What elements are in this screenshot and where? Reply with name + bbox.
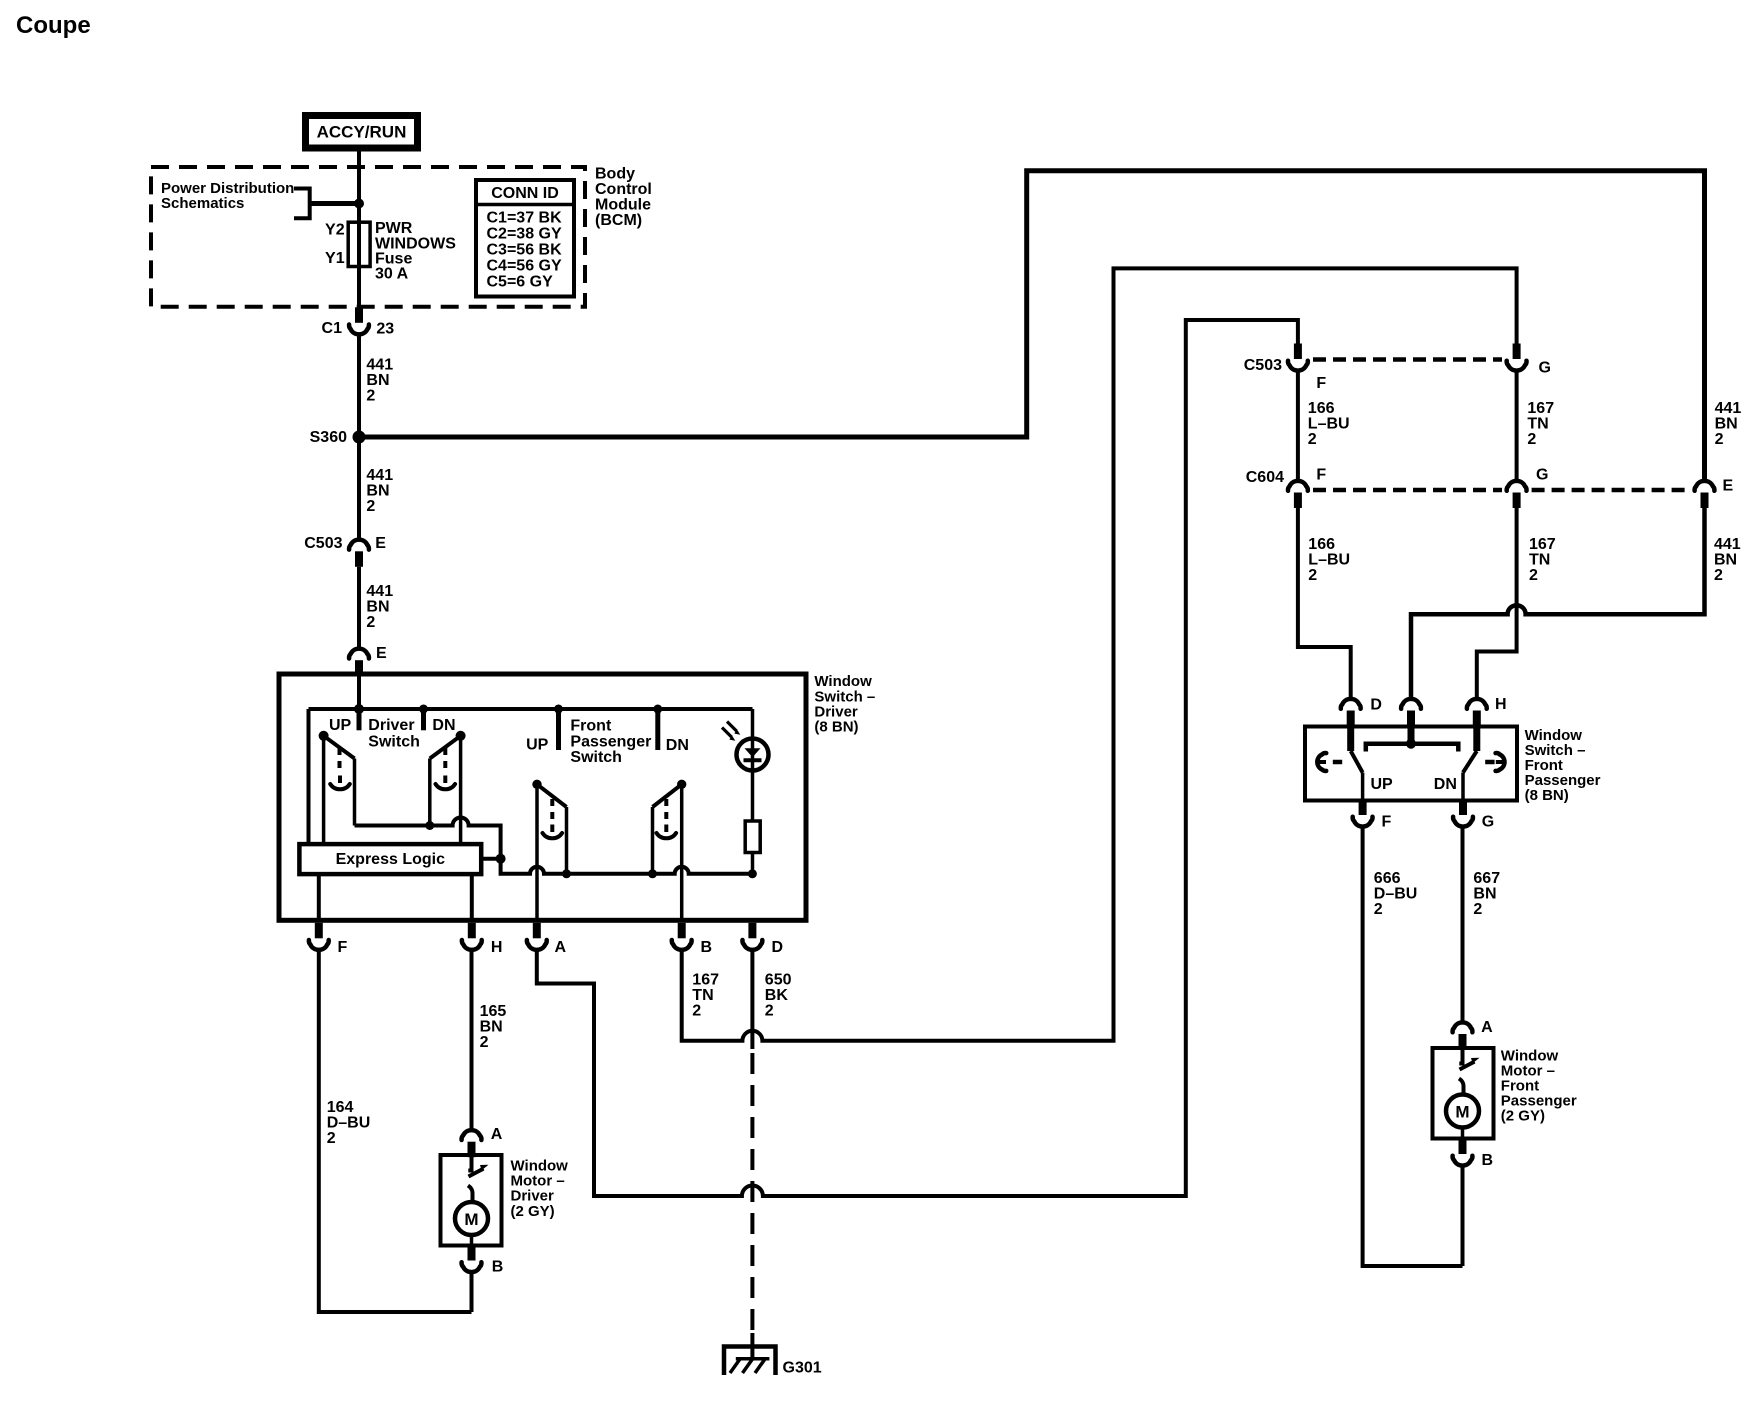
svg-text:Front: Front <box>570 718 612 735</box>
svg-text:ACCY/RUN: ACCY/RUN <box>317 123 407 142</box>
junction dot DN lever-output wire <box>648 869 657 878</box>
svg-text:C1: C1 <box>322 320 343 337</box>
connector pin F of driver window switch <box>309 923 329 950</box>
svg-text:G: G <box>1539 360 1551 377</box>
motor M circle (driver) <box>455 1202 488 1235</box>
connector pin H of driver window switch <box>462 923 482 950</box>
left frame wire down to Express Logic <box>307 709 311 846</box>
wire pin B of driver motor down to return <box>470 1273 474 1312</box>
wire 166 L-BU 2 from C604 F to switch pin D <box>1298 508 1351 698</box>
svg-text:C5=6 GY: C5=6 GY <box>487 274 554 291</box>
svg-text:BN: BN <box>366 483 389 500</box>
svg-text:A: A <box>1481 1019 1493 1036</box>
svg-text:(2 GY): (2 GY) <box>1501 1108 1545 1125</box>
svg-text:C4=56 GY: C4=56 GY <box>487 258 562 275</box>
svg-text:G: G <box>1482 814 1494 831</box>
svg-text:2: 2 <box>366 388 375 405</box>
driver UP switch lever <box>324 736 355 759</box>
svg-text:D: D <box>772 939 784 956</box>
connector pin D of front passenger switch <box>1341 699 1361 726</box>
svg-text:DN: DN <box>432 717 455 734</box>
svg-text:A: A <box>555 939 567 956</box>
connector pin F of front passenger switch <box>1353 800 1373 827</box>
svg-text:667: 667 <box>1473 870 1500 887</box>
driver UP switch pivot <box>319 731 329 741</box>
svg-text:L–BU: L–BU <box>1308 416 1350 433</box>
svg-text:2: 2 <box>692 1003 701 1020</box>
wire from bracket to fuse node <box>310 201 359 206</box>
svg-text:Switch: Switch <box>570 749 622 766</box>
svg-text:441: 441 <box>366 467 393 484</box>
front passenger DN detent dashes <box>664 799 668 822</box>
junction node above fuse <box>354 199 364 209</box>
svg-text:(8 BN): (8 BN) <box>814 719 858 736</box>
connector C604 pin F <box>1288 481 1308 508</box>
wire 667 BN 2 from fp pin G to fp motor pin A <box>1461 828 1465 1022</box>
circuit breaker symbol in driver motor <box>468 1155 471 1171</box>
front passenger UP terminal tick (in driver box) <box>556 709 561 750</box>
Express Logic output stub <box>481 857 500 861</box>
driver UP switch leg to Express Logic <box>322 736 326 846</box>
svg-text:L–BU: L–BU <box>1308 552 1350 569</box>
front passenger DN switch pivot <box>677 780 686 789</box>
svg-text:H: H <box>491 939 503 956</box>
wire motor to box bottom (fp) <box>1461 1128 1465 1139</box>
svg-text:B: B <box>701 939 713 956</box>
connector pin A of front passenger window motor <box>1453 1022 1473 1049</box>
LED indicator (illumination lamp) <box>751 709 755 821</box>
svg-text:BN: BN <box>1714 552 1737 569</box>
front passenger DN terminal tick (in driver box) <box>655 709 660 750</box>
svg-text:441: 441 <box>366 357 393 374</box>
svg-text:165: 165 <box>480 1003 507 1020</box>
junction dot DN lever-output wire <box>425 821 434 830</box>
wire fp motor pin B down to return <box>1461 1167 1465 1267</box>
svg-text:167: 167 <box>1529 536 1556 553</box>
circuit breaker symbol in fp motor <box>1459 1048 1462 1064</box>
connector pin G of front passenger switch <box>1453 800 1473 827</box>
window motor - driver box <box>441 1155 502 1246</box>
front passenger DN switch lever <box>653 784 682 807</box>
svg-text:DN: DN <box>1434 776 1457 793</box>
svg-text:M: M <box>1455 1103 1469 1122</box>
connector pin A of driver window motor <box>462 1130 482 1157</box>
BCM dashed boundary box <box>151 167 585 307</box>
svg-text:2: 2 <box>1308 431 1317 448</box>
connector pin D of driver window switch <box>742 923 762 950</box>
window switch - front passenger box outline <box>1305 727 1517 801</box>
svg-text:BN: BN <box>480 1019 503 1036</box>
fp DN detent hook <box>1496 760 1506 764</box>
svg-text:CONN ID: CONN ID <box>491 185 559 202</box>
svg-text:M: M <box>464 1210 478 1229</box>
svg-text:C503: C503 <box>304 535 342 552</box>
wire 167 TN 2 from pin B of driver switch to C503 pin G (long route) <box>682 268 1517 1040</box>
svg-text:C1=37 BK: C1=37 BK <box>487 210 563 227</box>
svg-text:164: 164 <box>327 1099 354 1116</box>
wire 441 BN 2 from S360 to front passenger circuit (long route) <box>359 171 1705 480</box>
svg-text:2: 2 <box>366 498 375 515</box>
driver switch common output wire with hop over DN leg <box>355 818 753 874</box>
driver switch UP terminal tick <box>357 709 362 730</box>
fp UP detent hook <box>1316 760 1326 764</box>
svg-text:G: G <box>1536 467 1548 484</box>
connector C604 pin G <box>1507 481 1527 508</box>
wire motor to box bottom <box>470 1235 474 1246</box>
svg-text:2: 2 <box>1714 567 1723 584</box>
bracket pointer from Power Distribution Schematics <box>294 189 310 219</box>
svg-text:B: B <box>1482 1152 1494 1169</box>
fp UP detent dash <box>1333 760 1342 765</box>
svg-text:D: D <box>1370 696 1382 713</box>
svg-text:C3=56 BK: C3=56 BK <box>487 242 563 259</box>
svg-text:DN: DN <box>666 737 689 754</box>
svg-text:166: 166 <box>1308 400 1335 417</box>
connector pin B of driver window switch <box>672 923 692 950</box>
svg-text:A: A <box>491 1126 503 1143</box>
svg-text:S360: S360 <box>310 429 347 446</box>
connector feed pin of front passenger switch <box>1401 699 1421 726</box>
svg-text:TN: TN <box>1529 552 1550 569</box>
LED illumination arrows <box>727 722 737 732</box>
connector pin H of front passenger switch <box>1467 699 1487 726</box>
junction dot Express Logic output <box>496 854 506 864</box>
internal supply rail of driver switch <box>309 707 753 711</box>
wire 167 TN 2 from C503 G to C604 G <box>1515 372 1519 481</box>
svg-text:UP: UP <box>329 717 352 734</box>
svg-text:23: 23 <box>376 321 394 338</box>
svg-text:2: 2 <box>765 1003 774 1020</box>
svg-text:2: 2 <box>1374 901 1383 918</box>
connector pin B of driver window motor <box>462 1245 482 1272</box>
svg-text:Coupe: Coupe <box>16 12 91 39</box>
svg-text:F: F <box>1316 375 1326 392</box>
driver DN switch pivot <box>456 731 466 741</box>
svg-text:E: E <box>375 535 386 552</box>
svg-text:166: 166 <box>1308 536 1335 553</box>
front passenger UP switch leg down to pin A <box>535 784 539 920</box>
wire from pin A of driver switch to C503 pin F (long route) <box>537 320 1298 1196</box>
connector pin A of driver window switch <box>527 923 547 950</box>
front passenger DN detent hook <box>664 825 668 833</box>
svg-text:Express Logic: Express Logic <box>336 851 445 868</box>
svg-text:(8 BN): (8 BN) <box>1525 787 1569 804</box>
wire 650 BK 2 from pin D of driver switch toward G301 <box>750 951 754 1049</box>
power feed box ACCY/RUN <box>306 116 418 149</box>
dashed harness line C503 F-G <box>1313 357 1502 362</box>
connector C503 pin E (trunk) <box>349 540 369 567</box>
svg-text:E: E <box>376 645 387 662</box>
Express Logic box <box>299 844 481 874</box>
wire 441 BN 2 from C1 to S360 and C503 <box>357 335 361 539</box>
svg-text:441: 441 <box>1714 536 1741 553</box>
wire 165 BN 2 from pin H to driver motor pin A <box>470 951 474 1129</box>
driver DN switch detent dashes <box>443 748 447 771</box>
stub wire into driver switch box <box>357 676 361 709</box>
svg-text:2: 2 <box>1308 567 1317 584</box>
feed stub and common bar inside fp switch <box>1408 727 1415 744</box>
junction dot resistor-output wire <box>748 869 757 878</box>
svg-text:2: 2 <box>366 614 375 631</box>
wire 167 TN 2 from C604 G to switch pin H <box>1477 508 1517 698</box>
svg-text:C2=38 GY: C2=38 GY <box>487 226 562 243</box>
svg-text:650: 650 <box>765 972 792 989</box>
ground G301 <box>750 1333 754 1357</box>
wire 441 BN 2 from C604 E to switch feed with hop over 167 wire <box>1411 508 1705 698</box>
svg-text:TN: TN <box>1527 416 1548 433</box>
svg-text:(BCM): (BCM) <box>595 212 642 229</box>
svg-text:F: F <box>1316 467 1326 484</box>
front passenger UP detent dashes <box>550 799 554 822</box>
svg-text:2: 2 <box>1473 901 1482 918</box>
svg-text:H: H <box>1495 696 1507 713</box>
front passenger UP switch lever <box>537 784 567 807</box>
svg-text:Switch: Switch <box>368 734 420 751</box>
driver DN switch lever <box>430 736 461 759</box>
svg-text:G301: G301 <box>783 1359 822 1376</box>
svg-text:2: 2 <box>327 1130 336 1147</box>
svg-text:UP: UP <box>1371 776 1394 793</box>
wire 666 D-BU 2 from fp pin F to motor return <box>1363 828 1463 1267</box>
wires from Express Logic to pins F and H <box>317 874 321 920</box>
wire 166 L-BU 2 from C503 F to C604 F <box>1296 372 1300 481</box>
fp DN switch lever from pin H <box>1473 727 1480 751</box>
wire 441 BN 2 from C503 to window switch pin E <box>357 567 361 648</box>
front passenger UP detent hook <box>550 825 554 833</box>
svg-text:2: 2 <box>1715 431 1724 448</box>
svg-text:BN: BN <box>1715 416 1738 433</box>
fuse PWR WINDOWS 30 A <box>348 222 370 266</box>
connector pin E of driver window switch <box>349 649 369 676</box>
connector C604 pin E <box>1695 481 1715 508</box>
dashed ground distribution wire to G301 <box>750 1053 754 1338</box>
driver UP switch detent dashes <box>338 748 342 771</box>
fp DN detent dash <box>1485 760 1494 765</box>
svg-text:2: 2 <box>480 1034 489 1051</box>
svg-text:TN: TN <box>692 987 713 1004</box>
wire from ACCY/RUN down through BCM to C1 <box>357 152 361 308</box>
fp UP switch lever from pin D <box>1347 727 1354 751</box>
wire 164 D-BU 2 from pin F to driver motor return <box>319 951 472 1312</box>
svg-text:666: 666 <box>1374 870 1401 887</box>
svg-text:B: B <box>492 1258 504 1275</box>
driver DN switch leg to Express Logic <box>459 736 463 846</box>
svg-text:441: 441 <box>366 583 393 600</box>
splice S360 <box>353 431 366 444</box>
junction dot trunk-rail <box>354 704 364 714</box>
svg-text:F: F <box>338 939 348 956</box>
svg-text:Schematics: Schematics <box>161 195 244 212</box>
junction dot UP lever-output wire <box>562 869 571 878</box>
svg-text:Driver: Driver <box>368 717 414 734</box>
dashed harness line C604 F-G-E <box>1313 488 1502 493</box>
svg-text:2: 2 <box>1529 567 1538 584</box>
svg-text:167: 167 <box>692 972 719 989</box>
driver UP switch detent hook <box>338 776 342 784</box>
svg-text:167: 167 <box>1527 400 1554 417</box>
driver switch DN terminal tick <box>421 709 426 730</box>
motor M circle (front passenger) <box>1446 1095 1479 1128</box>
svg-text:E: E <box>1723 478 1734 495</box>
svg-text:Y2: Y2 <box>325 222 345 239</box>
svg-text:30 A: 30 A <box>375 266 409 283</box>
svg-text:C604: C604 <box>1246 469 1284 486</box>
svg-text:BN: BN <box>1473 886 1496 903</box>
svg-text:UP: UP <box>526 736 549 753</box>
driver DN switch detent hook <box>443 776 447 784</box>
connector C503 pin G (right) <box>1507 344 1527 371</box>
front passenger DN switch leg down to pin B <box>680 784 684 920</box>
svg-text:Y1: Y1 <box>325 250 345 267</box>
svg-text:Passenger: Passenger <box>570 733 651 750</box>
svg-text:BK: BK <box>765 987 789 1004</box>
svg-text:BN: BN <box>366 372 389 389</box>
svg-text:D–BU: D–BU <box>327 1115 371 1132</box>
svg-text:441: 441 <box>1715 400 1742 417</box>
resistor (LED dropping) <box>745 821 760 853</box>
window switch - driver box outline <box>279 674 806 920</box>
connector C503 pin F (right) <box>1288 344 1308 371</box>
window motor - front passenger box <box>1433 1048 1494 1139</box>
svg-text:C503: C503 <box>1244 357 1282 374</box>
wire resistor to output wire <box>751 853 755 874</box>
connector pin B of front passenger window motor <box>1453 1139 1473 1166</box>
svg-text:D–BU: D–BU <box>1374 886 1418 903</box>
svg-text:F: F <box>1382 814 1392 831</box>
svg-text:(2 GY): (2 GY) <box>511 1203 555 1220</box>
front passenger UP switch pivot <box>532 780 541 789</box>
connector C1 pin 23 (BCM output) <box>349 307 369 334</box>
svg-text:BN: BN <box>366 599 389 616</box>
svg-text:2: 2 <box>1527 431 1536 448</box>
CONN ID table <box>476 180 574 297</box>
